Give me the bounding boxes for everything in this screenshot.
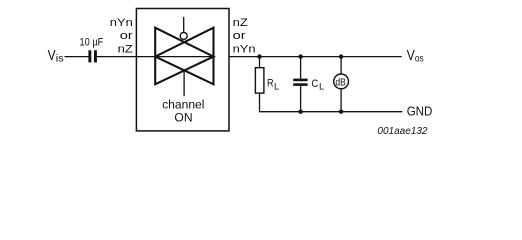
node dot CL bottom: [298, 110, 302, 114]
svg-text:ON: ON: [174, 111, 192, 125]
svg-text:nYn: nYn: [110, 17, 133, 29]
switch control line: [183, 17, 185, 33]
wire C1 to box: [97, 56, 155, 58]
svg-text:nYn: nYn: [233, 44, 256, 56]
node Vos: [407, 48, 424, 64]
pin label nYn or nZ: [110, 17, 134, 56]
wire through switch: [155, 56, 213, 58]
svg-text:is: is: [56, 54, 64, 65]
wire box to RL node: [229, 56, 260, 58]
node dot CL top: [298, 54, 302, 58]
analog switch element: [155, 28, 213, 85]
svg-text:C: C: [311, 78, 318, 90]
svg-text:or: or: [233, 30, 247, 42]
node dot RL top: [257, 54, 261, 58]
capacitor C1 value 10 uF: [80, 37, 104, 63]
svg-text:L: L: [319, 81, 324, 91]
leader line to channel label: [183, 71, 185, 96]
svg-text:or: or: [120, 30, 134, 42]
svg-text:V: V: [407, 48, 415, 64]
svg-text:nZ: nZ: [118, 44, 134, 56]
box DUT outline: [136, 9, 229, 131]
wire RL node to CL node: [260, 56, 301, 58]
svg-text:dB: dB: [335, 77, 345, 88]
svg-text:os: os: [415, 54, 424, 65]
meter dB: [334, 57, 349, 112]
wire dB node to Vos: [341, 56, 402, 58]
node Vis: [48, 48, 64, 64]
node dot dB bottom: [339, 110, 343, 114]
node dot dB top: [339, 54, 343, 58]
svg-text:R: R: [267, 78, 274, 90]
wire Vis to C1: [65, 56, 89, 58]
capacitor CL: [293, 57, 324, 112]
wire CL node to dB node: [301, 56, 342, 58]
svg-text:V: V: [48, 48, 56, 64]
svg-text:GND: GND: [407, 103, 433, 118]
resistor RL: [255, 57, 279, 112]
svg-text:10 µF: 10 µF: [80, 37, 104, 49]
pin label nZ or nYn: [233, 17, 256, 56]
svg-text:L: L: [274, 81, 279, 91]
wire GND run: [259, 111, 402, 113]
switch control bubble: [180, 32, 187, 39]
svg-text:channel: channel: [162, 97, 204, 111]
label channel ON: [162, 97, 204, 124]
svg-text:nZ: nZ: [233, 17, 249, 29]
svg-text:001aae132: 001aae132: [377, 126, 427, 137]
